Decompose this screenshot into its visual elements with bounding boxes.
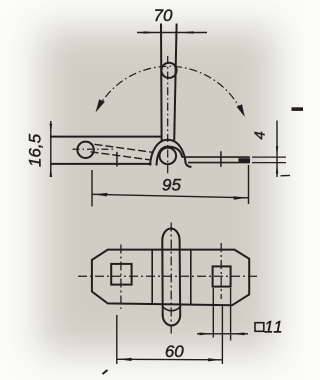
svg-text:16,5: 16,5 (26, 133, 45, 167)
svg-text:95: 95 (162, 176, 181, 195)
svg-text:11: 11 (264, 319, 284, 337)
svg-text:60: 60 (165, 342, 184, 361)
svg-text:70: 70 (154, 6, 173, 25)
svg-text:4: 4 (252, 131, 269, 139)
